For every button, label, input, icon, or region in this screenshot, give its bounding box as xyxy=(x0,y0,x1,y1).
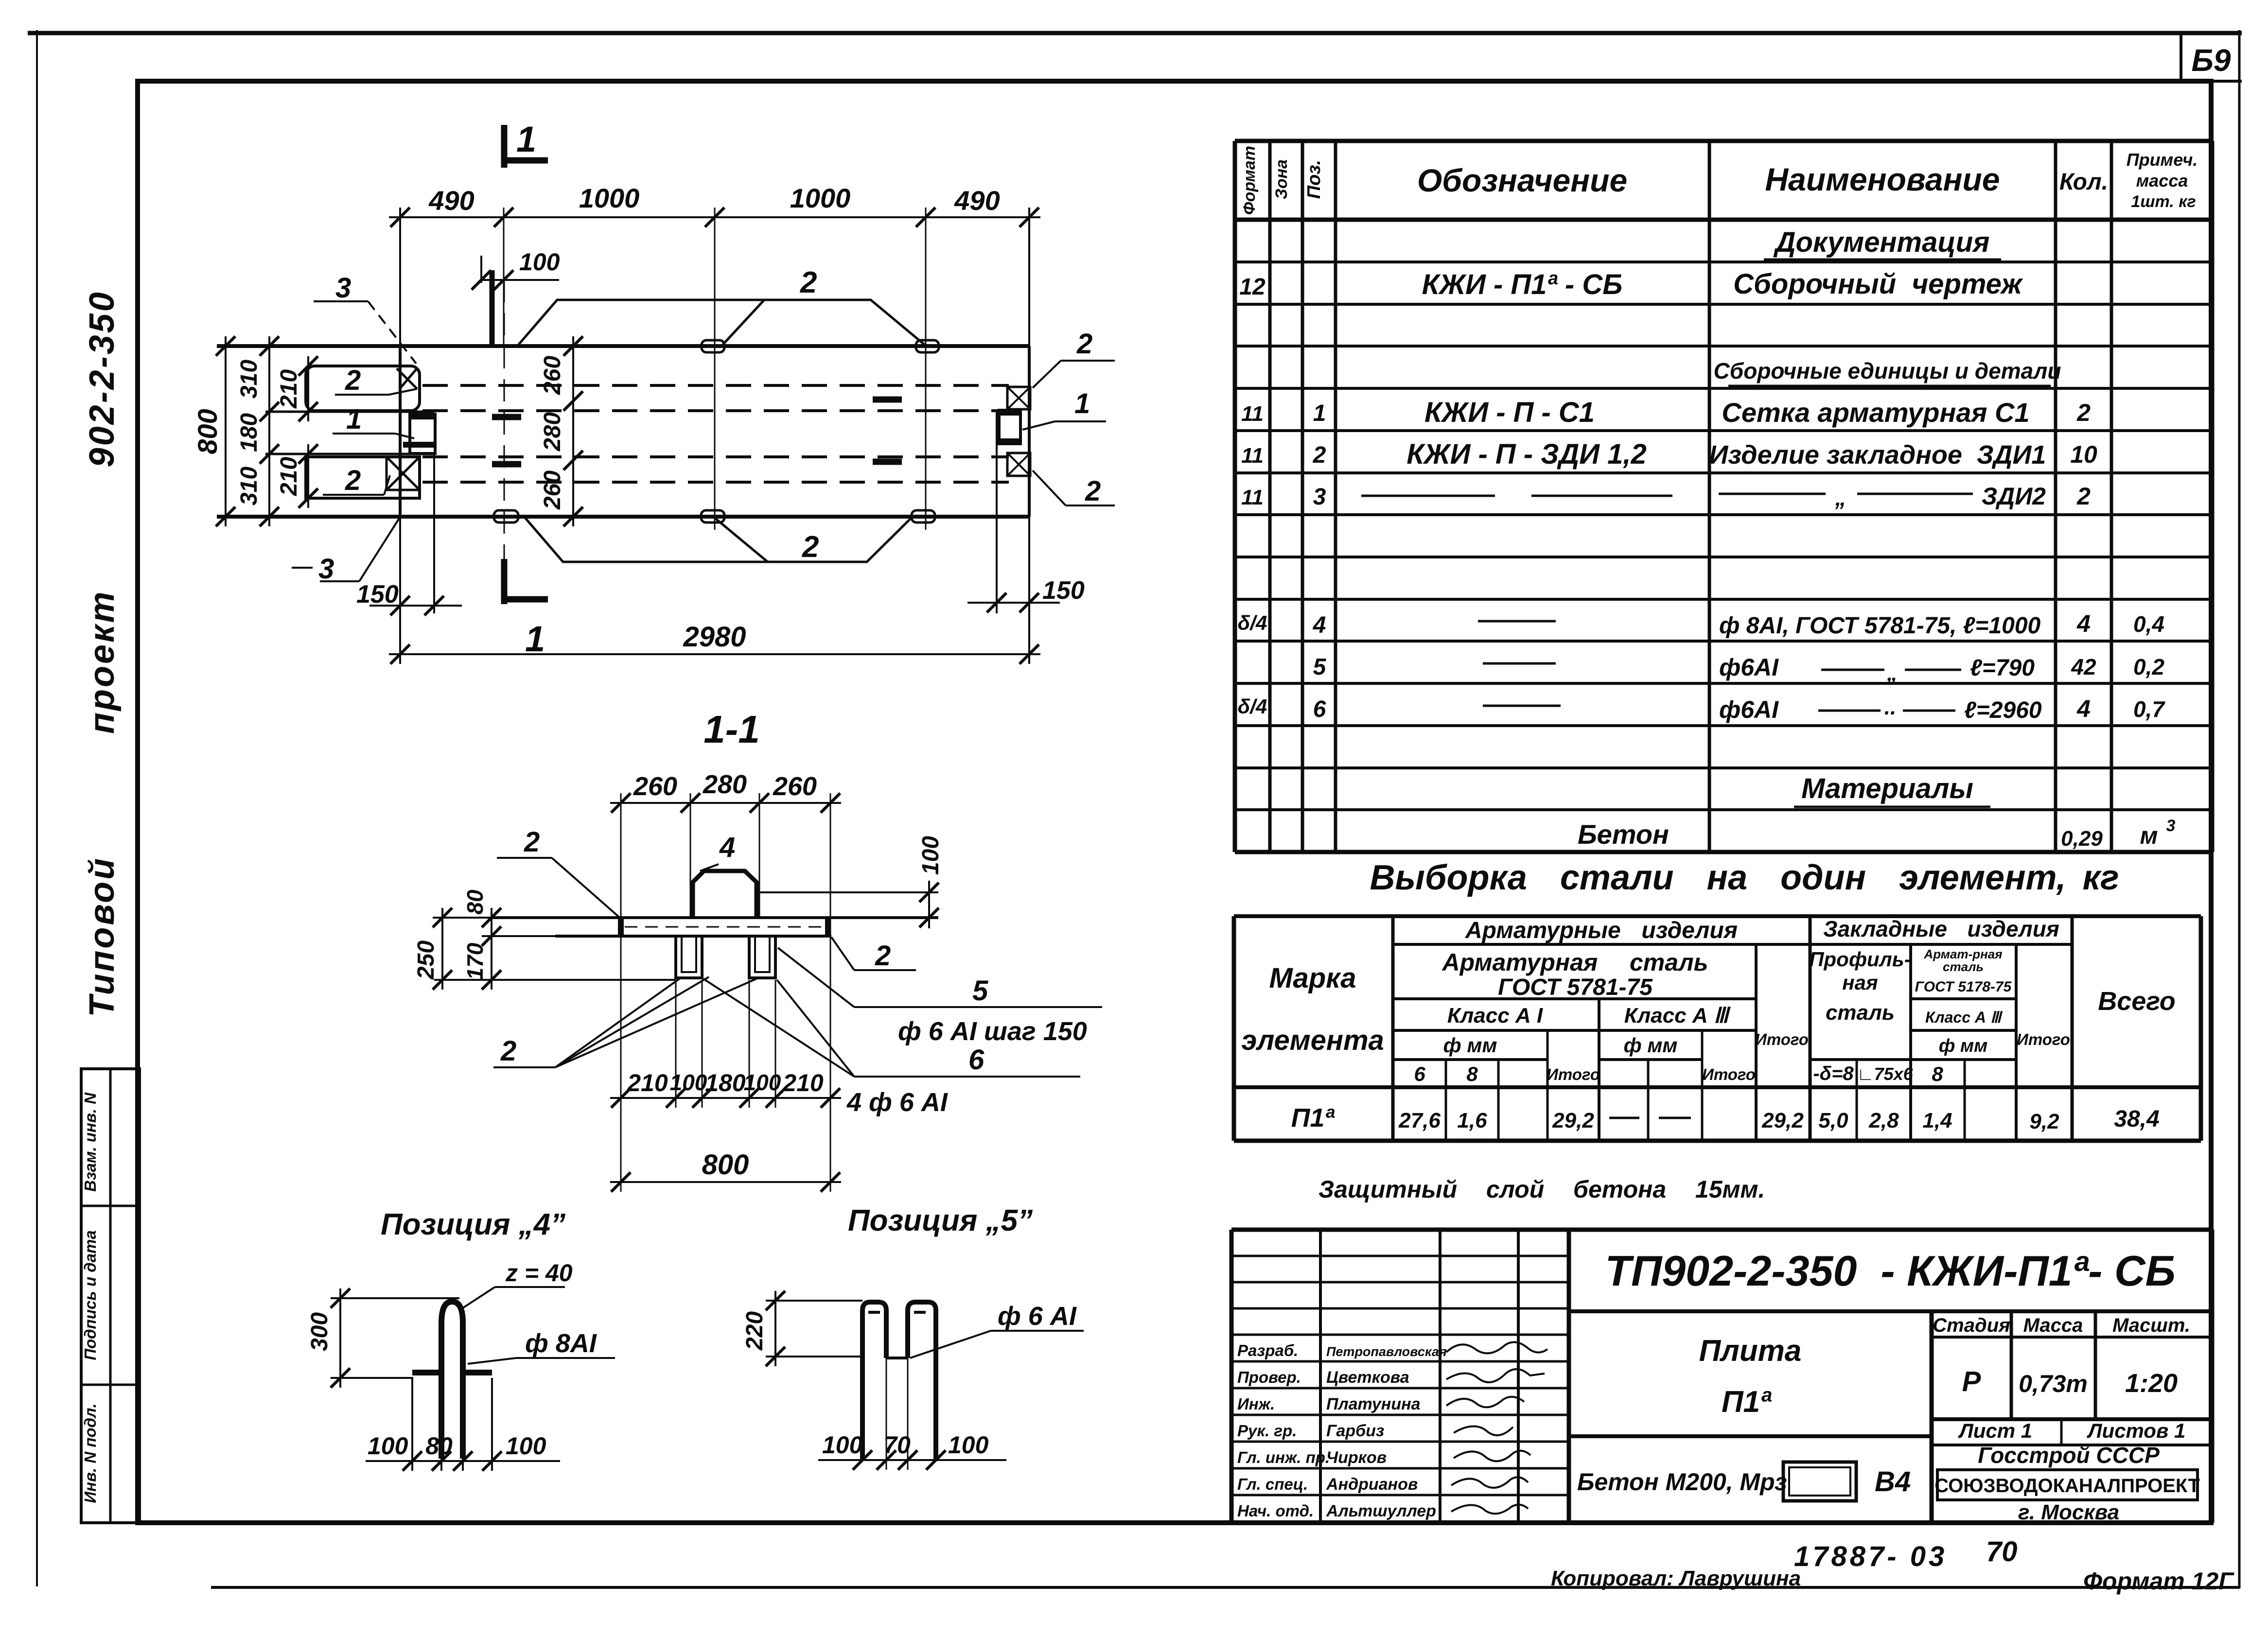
svg-text:Кол.: Кол. xyxy=(2059,169,2108,195)
svg-text:Плита: Плита xyxy=(1699,1334,1802,1368)
svg-text:260: 260 xyxy=(540,470,565,510)
plan middle tongue edges xyxy=(265,412,434,454)
svg-text:Формат: Формат xyxy=(1240,146,1259,215)
svg-text:10: 10 xyxy=(2070,441,2097,468)
svg-text:ф 6 АІ: ф 6 АІ xyxy=(998,1302,1077,1331)
sheet bottom edge line xyxy=(211,1586,2239,1589)
svg-text:м: м xyxy=(2140,822,2158,849)
svg-text:5: 5 xyxy=(972,975,988,1007)
position 5 bottom dimensions 100 70 100 xyxy=(818,1358,1006,1470)
svg-text:100: 100 xyxy=(519,248,560,276)
svg-text:Арматурные изделия: Арматурные изделия xyxy=(1465,918,1738,943)
svg-text:Итого: Итого xyxy=(2017,1030,2070,1048)
svg-text:490: 490 xyxy=(954,185,1000,216)
svg-text:Изделие закладное ЗДИ1: Изделие закладное ЗДИ1 xyxy=(1709,440,2046,470)
svg-text:Чирков: Чирков xyxy=(1326,1448,1387,1467)
embedded plate item 2 lower-right with cross xyxy=(1007,453,1030,476)
spec row pos2 zakladnoe xyxy=(1241,438,2097,470)
svg-text:2: 2 xyxy=(875,940,891,972)
svg-text:80: 80 xyxy=(462,889,488,915)
svg-text:ℓ=790: ℓ=790 xyxy=(1970,655,2035,681)
svg-text:Документация: Документация xyxy=(1773,226,1990,258)
svg-text:2: 2 xyxy=(1076,328,1092,360)
svg-text:100: 100 xyxy=(368,1432,408,1460)
svg-text:z = 40: z = 40 xyxy=(505,1259,573,1287)
spec row Materialy xyxy=(1794,773,1990,807)
svg-text:250: 250 xyxy=(413,940,439,980)
svg-text:Инж.: Инж. xyxy=(1237,1395,1275,1413)
callout 1 left xyxy=(333,403,414,438)
spec row KZHI-P1a-SB xyxy=(1239,268,2023,300)
svg-text:0,7: 0,7 xyxy=(2133,696,2165,722)
svg-text:Масса: Масса xyxy=(2023,1315,2083,1336)
svg-text:6: 6 xyxy=(968,1044,985,1076)
title block stage mass scale xyxy=(1933,1315,2190,1398)
note zashchitnyj sloj xyxy=(1319,1176,1765,1203)
title block grid xyxy=(1231,1230,2212,1523)
section rib left xyxy=(676,936,702,978)
svg-text:ЗДИ2: ЗДИ2 xyxy=(1982,483,2046,510)
svg-text:г. Москва: г. Москва xyxy=(2018,1500,2119,1524)
svg-text:150: 150 xyxy=(1042,576,1085,605)
svg-text:ная: ная xyxy=(1842,971,1878,994)
svg-text:Итого: Итого xyxy=(1702,1065,1756,1083)
detail title Position 4 xyxy=(381,1208,565,1241)
svg-text:29,2: 29,2 xyxy=(1552,1109,1594,1132)
svg-text:29,2: 29,2 xyxy=(1761,1109,1804,1132)
spec row pos5 f6AI xyxy=(1313,654,2165,685)
svg-text:Выборка стали на один элем: Выборка стали на один элемент, кг xyxy=(1370,858,2119,897)
svg-text:Инв. N подл.: Инв. N подл. xyxy=(81,1403,99,1503)
svg-text:КЖИ - П - ЗДИ 1,2: КЖИ - П - ЗДИ 1,2 xyxy=(1407,438,1647,470)
callout 3 bottom-left xyxy=(292,518,400,585)
position 4 callout f8AI xyxy=(468,1329,615,1364)
sheet right edge line xyxy=(2238,30,2241,1588)
svg-text:Масшт.: Масшт. xyxy=(2112,1315,2190,1336)
plan dimension 210 upper xyxy=(276,356,318,421)
specification table header texts xyxy=(1240,146,2198,215)
svg-text:Позиция „5”: Позиция „5” xyxy=(848,1204,1033,1237)
svg-text:1: 1 xyxy=(1313,400,1326,426)
callout 1 right xyxy=(1022,388,1106,430)
plan rebar dashed line a xyxy=(422,384,1009,387)
svg-text:3: 3 xyxy=(335,272,351,304)
svg-text:Разраб.: Разраб. xyxy=(1237,1341,1298,1359)
svg-text:210: 210 xyxy=(276,369,302,409)
svg-text:ф мм: ф мм xyxy=(1624,1034,1678,1057)
svg-text:0,2: 0,2 xyxy=(2133,654,2164,679)
svg-text:Платунина: Платунина xyxy=(1326,1395,1421,1413)
svg-text:3: 3 xyxy=(1313,484,1326,510)
svg-text:Петропавловская: Петропавловская xyxy=(1326,1344,1447,1359)
svg-text:Гарбиз: Гарбиз xyxy=(1326,1422,1384,1440)
svg-text:Лист 1: Лист 1 xyxy=(1958,1419,2032,1442)
svg-text:3: 3 xyxy=(2166,817,2176,835)
callout 2 top trapezoid xyxy=(517,266,926,346)
svg-text:0,4: 0,4 xyxy=(2133,611,2164,637)
section bottom dimension chain 210 100 180 100 210 xyxy=(610,980,841,1108)
svg-text:Стадия: Стадия xyxy=(1933,1315,2010,1336)
svg-text:11: 11 xyxy=(1241,486,1264,509)
bar item 4 marks on plan xyxy=(492,400,902,464)
svg-text:4 ф 6 АІ: 4 ф 6 АІ xyxy=(846,1088,948,1117)
svg-text:17887- 03: 17887- 03 xyxy=(1794,1541,1947,1572)
svg-text:сталь: сталь xyxy=(1826,1001,1895,1025)
svg-text:0,73т: 0,73т xyxy=(2019,1370,2088,1397)
svg-text:1: 1 xyxy=(516,119,536,159)
svg-text:Класс А І: Класс А І xyxy=(1447,1004,1543,1027)
svg-text:12: 12 xyxy=(1239,274,1266,300)
svg-text:Цветкова: Цветкова xyxy=(1326,1368,1409,1387)
svg-text:300: 300 xyxy=(307,1312,333,1351)
svg-text:Бетон: Бетон xyxy=(1578,819,1669,850)
svg-text:Обозначение: Обозначение xyxy=(1417,162,1627,198)
svg-text:П1ª: П1ª xyxy=(1722,1385,1772,1419)
spec row pos6 f6AI xyxy=(1238,695,2166,723)
svg-text:ф6АІ: ф6АІ xyxy=(1719,654,1779,681)
svg-text:δ/4: δ/4 xyxy=(1238,611,1267,634)
svg-text:42: 42 xyxy=(2071,654,2096,679)
svg-text:6: 6 xyxy=(1313,696,1326,722)
sheet top edge line xyxy=(28,31,2242,35)
svg-text:4: 4 xyxy=(2076,695,2091,722)
svg-text:100: 100 xyxy=(822,1431,863,1459)
svg-text:ℓ=2960: ℓ=2960 xyxy=(1964,697,2042,723)
svg-text:„: „ xyxy=(1886,661,1898,685)
svg-text:ф 6 АІ шаг 150: ф 6 АІ шаг 150 xyxy=(898,1017,1087,1046)
position 5 callout f6AI xyxy=(910,1302,1084,1358)
left margin stamp boxes xyxy=(81,1069,140,1523)
svg-text:Итого: Итого xyxy=(1755,1030,1809,1048)
title block concrete note xyxy=(1577,1462,1911,1501)
svg-text:Гл. спец.: Гл. спец. xyxy=(1237,1475,1308,1493)
svg-text:8: 8 xyxy=(1932,1062,1943,1085)
svg-text:Закладные изделия: Закладные изделия xyxy=(1823,916,2059,941)
svg-text:2: 2 xyxy=(802,530,819,564)
embedded plate item 2 upper-left xyxy=(306,366,420,411)
svg-text:В4: В4 xyxy=(1875,1466,1911,1497)
title block document number xyxy=(1605,1247,2176,1295)
svg-text:280: 280 xyxy=(540,412,565,452)
plan dimension chain 260 280 260 xyxy=(540,336,583,526)
svg-text:Госстрой СССР: Госстрой СССР xyxy=(1978,1443,2160,1468)
svg-text:Класс А Ⅲ: Класс А Ⅲ xyxy=(1624,1004,1731,1027)
svg-text:1000: 1000 xyxy=(579,183,640,213)
title block name Plita xyxy=(1699,1334,1802,1419)
svg-text:150: 150 xyxy=(356,580,399,609)
sheet left edge line xyxy=(36,30,38,1586)
sheet number box B9 xyxy=(2181,33,2242,81)
svg-text:Подпись и дата: Подпись и дата xyxy=(81,1230,99,1360)
handwritten number 17887-03 70 xyxy=(1794,1536,2018,1572)
svg-text:27,6: 27,6 xyxy=(1398,1109,1441,1132)
svg-text:ф мм: ф мм xyxy=(1939,1036,1987,1056)
svg-text:260: 260 xyxy=(773,772,817,801)
svg-text:1000: 1000 xyxy=(790,183,851,213)
svg-text:280: 280 xyxy=(703,770,747,799)
svg-text:2: 2 xyxy=(1085,475,1101,507)
svg-text:Материалы: Материалы xyxy=(1801,773,1973,804)
svg-text:ГОСТ 5781-75: ГОСТ 5781-75 xyxy=(1498,975,1653,1000)
svg-text:ф6АІ: ф6АІ xyxy=(1719,696,1779,723)
svg-text:Б9: Б9 xyxy=(2192,43,2231,78)
svg-text:Типовой проект 902-2-350: Типовой проект 902-2-350 xyxy=(83,290,122,1017)
svg-text:2: 2 xyxy=(345,365,361,396)
svg-text:310: 310 xyxy=(236,467,262,505)
svg-text:сталь: сталь xyxy=(1943,959,1984,974)
callout 3 top-left xyxy=(314,272,416,364)
svg-text:δ/4: δ/4 xyxy=(1238,695,1267,718)
svg-text:70: 70 xyxy=(1986,1536,2018,1567)
svg-text:100: 100 xyxy=(506,1432,546,1460)
svg-text:Формат 12Г: Формат 12Г xyxy=(2083,1567,2234,1595)
svg-text:2: 2 xyxy=(345,465,361,496)
svg-text:180: 180 xyxy=(705,1069,746,1096)
svg-text:Копировал: Лаврушина: Копировал: Лаврушина xyxy=(1551,1566,1801,1590)
svg-text:1: 1 xyxy=(346,403,362,435)
svg-text:Арматурная сталь: Арматурная сталь xyxy=(1442,949,1708,976)
plan dimension 150 right xyxy=(967,410,1085,613)
svg-text:260: 260 xyxy=(540,356,565,395)
section dimension 800 xyxy=(610,1108,841,1192)
section callout 2 upper-left xyxy=(497,826,621,919)
embedded plate item 2 lower-left with cross xyxy=(306,457,420,498)
svg-text:260: 260 xyxy=(633,772,677,801)
plan dimension 150 left xyxy=(356,454,462,615)
plan rebar dashed line b xyxy=(422,409,1009,412)
section callout 6 bars xyxy=(703,979,1080,1117)
section dimension 250 xyxy=(413,908,676,990)
plan dimension 2980 xyxy=(389,517,1040,664)
plan top dimension chain 490 1000 1000 490 xyxy=(389,183,1040,530)
lifting loop marks on plan edges xyxy=(494,340,939,522)
svg-text:9,2: 9,2 xyxy=(2029,1110,2059,1133)
rotated sheet title Типовой проект 902-2-350 xyxy=(83,290,122,1017)
svg-text:100: 100 xyxy=(670,1070,707,1095)
plan left dimension chain 310 180 310 xyxy=(236,336,279,526)
section rib right xyxy=(749,936,775,978)
plan rebar dashed line d xyxy=(422,481,1009,484)
svg-text:2,8: 2,8 xyxy=(1868,1109,1899,1132)
svg-text:2: 2 xyxy=(1313,442,1326,468)
title block organization xyxy=(1934,1443,2200,1524)
svg-text:Профиль-: Профиль- xyxy=(1809,948,1911,971)
steel table header texts xyxy=(1241,916,2176,1085)
plan dimension 100 xyxy=(472,248,560,346)
svg-text:1,4: 1,4 xyxy=(1922,1109,1952,1132)
svg-text:Итого: Итого xyxy=(1547,1065,1600,1083)
svg-text:Зона: Зона xyxy=(1272,159,1291,199)
svg-text:Марка: Марка xyxy=(1269,962,1356,994)
steel table title xyxy=(1370,858,2119,897)
svg-text:180: 180 xyxy=(236,413,262,452)
svg-text:Наименование: Наименование xyxy=(1765,161,2000,197)
svg-text:8: 8 xyxy=(1466,1062,1478,1085)
svg-text:масса: масса xyxy=(2136,171,2188,191)
plan dimension 210 lower xyxy=(276,444,318,508)
position 5 staple bar left xyxy=(862,1302,886,1460)
svg-text:Гл. инж. пр.: Гл. инж. пр. xyxy=(1237,1448,1330,1466)
svg-text:1,6: 1,6 xyxy=(1457,1109,1487,1132)
svg-text:Сетка арматурная С1: Сетка арматурная С1 xyxy=(1722,397,2029,428)
svg-text:2: 2 xyxy=(524,826,540,858)
svg-text:220: 220 xyxy=(742,1311,768,1351)
steel table data row xyxy=(1291,1103,2160,1133)
svg-text:ГОСТ 5178-75: ГОСТ 5178-75 xyxy=(1915,979,2012,995)
svg-text:70: 70 xyxy=(883,1431,911,1459)
position 4 hairpin bar xyxy=(412,1302,492,1459)
svg-text:ф 8АІ, ГОСТ 5781-75, ℓ=1000: ф 8АІ, ГОСТ 5781-75, ℓ=1000 xyxy=(1719,613,2041,639)
svg-text:Р: Р xyxy=(1962,1366,1981,1397)
callout 2 lower-left xyxy=(323,465,390,496)
svg-text:Примеч.: Примеч. xyxy=(2127,150,2198,170)
svg-text:6: 6 xyxy=(1414,1062,1425,1085)
svg-text:2: 2 xyxy=(500,1035,516,1067)
section slab flange xyxy=(492,918,938,936)
svg-text:210: 210 xyxy=(276,457,302,496)
position 4 dimension 300 xyxy=(307,1288,459,1388)
svg-text:элемента: элемента xyxy=(1241,1025,1384,1056)
position 4 callout z=40 xyxy=(463,1259,573,1308)
callout 2 upper-left xyxy=(335,365,417,396)
section mark 1 top xyxy=(504,119,548,168)
svg-text:1: 1 xyxy=(1074,388,1090,419)
svg-text:ф 8АІ: ф 8АІ xyxy=(525,1329,597,1358)
specification table grid xyxy=(1235,141,2212,852)
svg-text:100: 100 xyxy=(948,1431,989,1459)
section dimensions 80 and 170 xyxy=(462,889,555,990)
svg-text:310: 310 xyxy=(236,360,262,399)
svg-text:490: 490 xyxy=(428,185,474,216)
callout 2 lower-right xyxy=(1033,470,1115,507)
svg-text:210: 210 xyxy=(782,1069,824,1096)
svg-text:∟75x6: ∟75x6 xyxy=(1857,1064,1913,1084)
svg-text:Нач. отд.: Нач. отд. xyxy=(1237,1502,1314,1520)
svg-text:П1ª: П1ª xyxy=(1291,1103,1336,1132)
plan rebar dashed line c xyxy=(422,455,1009,458)
svg-text:Сборочные единицы и детали: Сборочные единицы и детали xyxy=(1714,358,2061,383)
spec row pos1 setka xyxy=(1241,397,2091,428)
svg-text:0,29: 0,29 xyxy=(2061,827,2103,851)
spec row Sborochnye edinicy xyxy=(1714,358,2061,386)
svg-text:5: 5 xyxy=(1313,654,1327,680)
spec row Dokumentacija xyxy=(1764,226,2001,260)
section dimension 100 right xyxy=(756,836,944,928)
svg-text:100: 100 xyxy=(918,836,944,875)
svg-text:Сборочный чертеж: Сборочный чертеж xyxy=(1733,268,2023,300)
svg-text:Рук. гр.: Рук. гр. xyxy=(1237,1422,1297,1440)
svg-text:2: 2 xyxy=(2076,399,2091,426)
svg-text:„: „ xyxy=(1835,485,1846,510)
svg-text:ТП902-2-350 - КЖИ-П1ª- СБ: ТП902-2-350 - КЖИ-П1ª- СБ xyxy=(1605,1247,2176,1295)
svg-text:Андрианов: Андрианов xyxy=(1326,1475,1418,1494)
svg-text:1-1: 1-1 xyxy=(703,708,760,751)
format note xyxy=(2083,1567,2234,1595)
embedded plate item 2 upper-right with cross xyxy=(1007,387,1030,409)
svg-text:Взам. инв. N: Взам. инв. N xyxy=(81,1092,99,1192)
svg-text:5,0: 5,0 xyxy=(1818,1109,1848,1132)
callout 2 upper-right xyxy=(1033,328,1115,388)
position 5 connector line xyxy=(886,1357,908,1359)
svg-text:11: 11 xyxy=(1241,402,1264,426)
svg-text:170: 170 xyxy=(462,942,488,980)
svg-text:Листов 1: Листов 1 xyxy=(2087,1419,2186,1442)
position 5 dimension 220 xyxy=(742,1291,862,1366)
spec row pos3 ZDI2 xyxy=(1241,483,2091,510)
copied by note xyxy=(1551,1566,1801,1590)
svg-text:КЖИ - П1ª - СБ: КЖИ - П1ª - СБ xyxy=(1422,269,1623,300)
detail title Position 5 xyxy=(848,1204,1033,1237)
mesh end item 1 right xyxy=(999,410,1020,444)
section top dimension chain 260 280 260 xyxy=(610,770,841,1108)
svg-text:800: 800 xyxy=(192,409,223,454)
section callout 2 lower-left xyxy=(493,977,758,1067)
svg-text:-δ=8: -δ=8 xyxy=(1813,1063,1854,1084)
position 5 staple bar right xyxy=(908,1302,936,1460)
svg-text:..: .. xyxy=(1884,696,1896,719)
svg-text:Провер.: Провер. xyxy=(1237,1368,1301,1386)
svg-text:2: 2 xyxy=(2076,483,2091,510)
svg-text:Альтшуллер: Альтшуллер xyxy=(1326,1502,1436,1520)
svg-text:3: 3 xyxy=(318,553,334,585)
callout 2 bottom trapezoid xyxy=(524,517,913,564)
mesh end item 1 left xyxy=(403,414,435,453)
svg-text:2: 2 xyxy=(800,266,817,299)
svg-text:Позиция „4”: Позиция „4” xyxy=(381,1208,565,1241)
svg-text:80: 80 xyxy=(425,1432,453,1460)
svg-text:4: 4 xyxy=(1313,612,1326,638)
section bar hook item 4 xyxy=(693,832,756,918)
section trace dashed xyxy=(504,280,505,559)
svg-text:ф мм: ф мм xyxy=(1443,1034,1497,1057)
section mark 1 bottom xyxy=(504,559,548,659)
signature scribbles xyxy=(1446,1342,1547,1514)
position 4 bottom dimensions 100 80 100 xyxy=(366,1378,560,1471)
svg-text:Бетон М200, Мрз: Бетон М200, Мрз xyxy=(1577,1468,1787,1496)
section callout 5 mesh xyxy=(778,948,1102,1046)
svg-text:1:20: 1:20 xyxy=(2125,1369,2178,1398)
svg-text:1: 1 xyxy=(525,619,545,659)
plan left dimension 800 xyxy=(192,336,235,526)
svg-text:38,4: 38,4 xyxy=(2114,1106,2159,1132)
svg-text:Поз.: Поз. xyxy=(1304,160,1324,199)
spec row Beton xyxy=(1578,817,2176,851)
svg-text:СОЮЗВОДОКАНАЛПРОЕКТ: СОЮЗВОДОКАНАЛПРОЕКТ xyxy=(1934,1475,2200,1497)
svg-text:4: 4 xyxy=(2076,610,2091,637)
svg-text:Класс А Ⅲ: Класс А Ⅲ xyxy=(1925,1009,2003,1026)
svg-text:Всего: Всего xyxy=(2098,987,2176,1016)
svg-text:КЖИ - П - С1: КЖИ - П - С1 xyxy=(1424,397,1595,428)
spec row pos4 f8AI xyxy=(1238,610,2164,639)
steel table grid xyxy=(1234,916,2201,1141)
section title 1-1 xyxy=(703,708,760,751)
title block sheet counts xyxy=(1958,1419,2185,1442)
svg-text:100: 100 xyxy=(744,1070,781,1095)
section callout 2 right xyxy=(831,937,916,972)
svg-text:11: 11 xyxy=(1241,444,1264,468)
svg-text:800: 800 xyxy=(702,1149,749,1181)
plan slab outline xyxy=(217,346,1029,517)
svg-text:Защитный слой бетона 15мм.: Защитный слой бетона 15мм. xyxy=(1319,1176,1765,1203)
svg-text:1шт. кг: 1шт. кг xyxy=(2131,192,2196,211)
title block signature rows xyxy=(1237,1341,1447,1520)
svg-text:2980: 2980 xyxy=(683,621,746,653)
svg-text:210: 210 xyxy=(627,1069,668,1096)
svg-text:4: 4 xyxy=(719,832,735,863)
